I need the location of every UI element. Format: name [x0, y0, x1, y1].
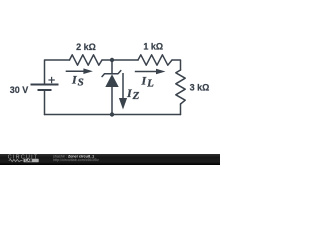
footer black watermark bar: [0, 154, 220, 166]
resistor R3 3k zigzag: [176, 70, 185, 104]
battery V1 short plate (-): [38, 89, 52, 91]
current arrow IL: [135, 69, 166, 75]
wire battery negative to rail: [44, 90, 46, 115]
wire between R1 and node A: [102, 59, 138, 61]
current arrow IZ: [119, 73, 127, 110]
wire top-left segment: [45, 60, 70, 84]
battery V1 long plate (+): [31, 84, 59, 86]
svg-text:http://circuitlab.com/c663f5v: http://circuitlab.com/c663f5v: [53, 158, 99, 162]
wire bottom rail: [45, 114, 181, 116]
battery V1 plus sign: [48, 77, 54, 83]
CircuitLab logo resistor squiggle: [9, 159, 23, 161]
zener diode D1 top lead: [111, 60, 113, 74]
svg-text:LAB: LAB: [25, 159, 32, 163]
resistor R2 1k zigzag: [138, 55, 172, 65]
zener diode D1 bottom lead: [111, 87, 113, 115]
wire R2 to top-right corner: [172, 60, 181, 70]
zener diode D1 cathode bar: [102, 71, 121, 77]
node B junction dot bottom: [110, 112, 114, 116]
CircuitLab logo LAB box: [24, 159, 39, 163]
node A junction dot top: [110, 58, 114, 62]
wire R3 to bottom rail: [180, 104, 182, 115]
zener diode D1 anode triangle: [105, 74, 118, 87]
resistor R1 2k zigzag: [70, 55, 103, 65]
current arrow IS: [66, 68, 93, 74]
